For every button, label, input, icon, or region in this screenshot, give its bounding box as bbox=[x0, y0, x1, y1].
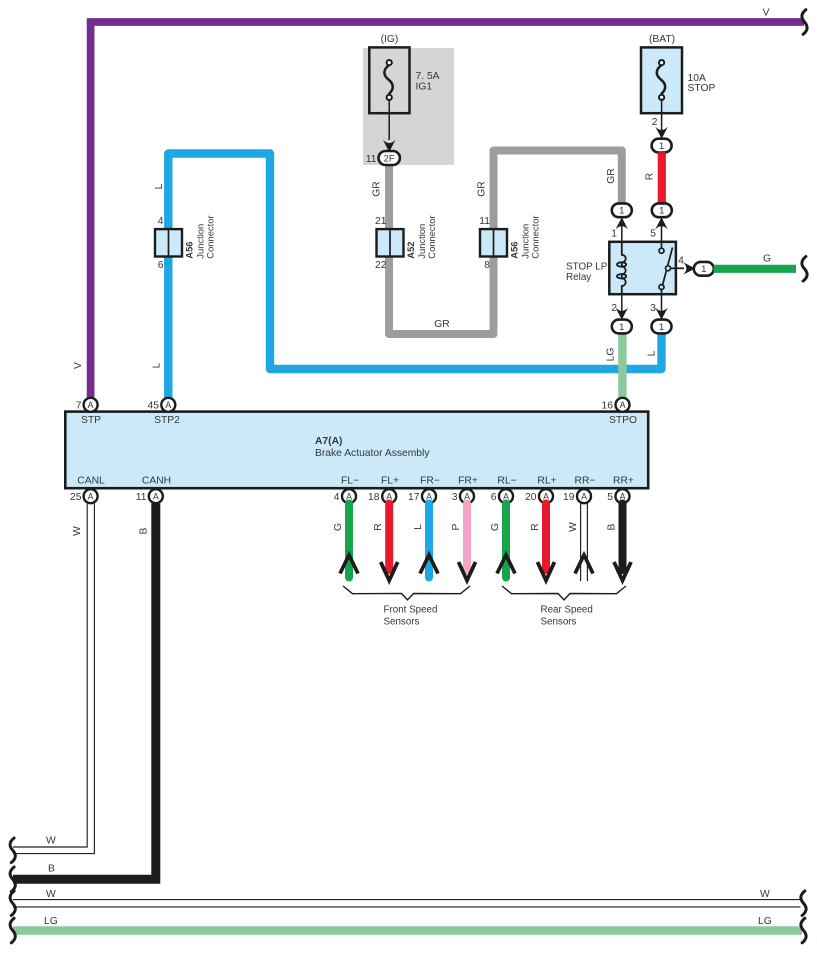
break symbol G wire bbox=[802, 257, 807, 282]
svg-text:GR: GR bbox=[477, 181, 488, 196]
svg-text:19: 19 bbox=[563, 492, 575, 503]
label STOP LP Relay bbox=[566, 262, 608, 284]
wire FR- L blue bbox=[420, 504, 438, 578]
svg-text:LG: LG bbox=[44, 916, 58, 927]
svg-text:3: 3 bbox=[452, 492, 458, 503]
label A52 Junction Connector bbox=[405, 215, 437, 258]
svg-text:W: W bbox=[568, 522, 579, 532]
connector oval GR column bbox=[612, 203, 632, 217]
svg-text:Connector: Connector bbox=[530, 215, 541, 258]
node FL- connector 4(A) bbox=[334, 476, 359, 504]
svg-text:STOP LP: STOP LP bbox=[566, 262, 608, 273]
break symbol V wire right end bbox=[802, 10, 807, 35]
svg-text:CANL: CANL bbox=[77, 476, 105, 487]
svg-text:17: 17 bbox=[408, 492, 420, 503]
svg-text:GR: GR bbox=[606, 168, 617, 183]
svg-text:G: G bbox=[333, 523, 344, 531]
node FR+ connector 3(A) bbox=[452, 476, 478, 504]
relay U1 STOP LP box bbox=[609, 242, 676, 294]
label Front Speed Sensors bbox=[384, 605, 438, 628]
junction connector A56 right bbox=[480, 229, 507, 256]
node CANH connector 11(A) bbox=[136, 476, 171, 504]
break symbol W left bbox=[10, 891, 15, 916]
wire LG relay pin2 to STPO bbox=[618, 333, 626, 398]
svg-text:RR−: RR− bbox=[575, 476, 596, 487]
label A7(A) title bbox=[315, 436, 430, 459]
connector oval above red wire bbox=[652, 139, 672, 153]
svg-text:(BAT): (BAT) bbox=[649, 34, 675, 45]
wire relay pin5 bbox=[655, 217, 668, 243]
svg-text:B: B bbox=[139, 527, 150, 534]
junction connector A56 left bbox=[155, 229, 182, 256]
svg-text:2: 2 bbox=[611, 303, 617, 314]
wire FR+ P pink bbox=[459, 504, 476, 581]
label A56 Junction Connector left bbox=[184, 215, 216, 258]
svg-text:FR−: FR− bbox=[420, 476, 440, 487]
svg-text:W: W bbox=[46, 889, 56, 900]
label Rear Speed Sensors bbox=[541, 605, 593, 628]
svg-text:Connector: Connector bbox=[426, 215, 437, 258]
svg-text:21: 21 bbox=[375, 216, 387, 227]
label 10A STOP bbox=[688, 73, 716, 94]
svg-text:1: 1 bbox=[611, 229, 617, 240]
break symbol LG right bbox=[801, 918, 806, 943]
svg-text:W: W bbox=[46, 836, 56, 847]
relay switch bbox=[659, 242, 684, 294]
wire relay pin1 bbox=[616, 217, 629, 243]
svg-text:Relay: Relay bbox=[566, 272, 591, 283]
wire V purple main bbox=[91, 22, 804, 398]
svg-text:G: G bbox=[763, 254, 771, 265]
svg-text:7: 7 bbox=[76, 401, 82, 412]
svg-text:Front Speed: Front Speed bbox=[384, 605, 438, 616]
svg-text:4: 4 bbox=[158, 216, 164, 227]
node CANL connector 25(A) bbox=[70, 476, 105, 504]
relay coil bbox=[617, 242, 626, 294]
svg-text:5: 5 bbox=[650, 229, 656, 240]
svg-text:2: 2 bbox=[652, 117, 658, 128]
svg-text:18: 18 bbox=[368, 492, 380, 503]
svg-text:B: B bbox=[607, 523, 618, 530]
svg-text:W: W bbox=[72, 526, 83, 536]
svg-text:5: 5 bbox=[607, 492, 613, 503]
node STP2 connector 45(A) bbox=[148, 398, 181, 426]
wire R red bbox=[658, 152, 666, 203]
svg-text:(IG): (IG) bbox=[381, 34, 399, 45]
svg-text:R: R bbox=[530, 523, 541, 530]
svg-text:4: 4 bbox=[334, 492, 340, 503]
svg-text:6: 6 bbox=[158, 260, 164, 271]
label A56 Junction Connector right bbox=[509, 215, 541, 258]
connector oval pin4 bbox=[694, 262, 714, 276]
wire W bottom horizontal bbox=[13, 900, 801, 907]
svg-text:STOP: STOP bbox=[688, 83, 716, 94]
brace front speed sensors bbox=[343, 586, 470, 600]
svg-text:6: 6 bbox=[491, 492, 497, 503]
node RR+ connector 5(A) bbox=[607, 476, 634, 504]
wire CANL W white bbox=[13, 504, 94, 854]
wire FL+ R red bbox=[381, 504, 398, 581]
svg-text:11: 11 bbox=[366, 154, 377, 165]
svg-text:STP2: STP2 bbox=[154, 415, 180, 426]
svg-text:RR+: RR+ bbox=[613, 476, 634, 487]
svg-text:LG: LG bbox=[758, 916, 772, 927]
svg-text:25: 25 bbox=[70, 492, 82, 503]
wire RR+ B black bbox=[614, 504, 631, 581]
svg-text:A7(A): A7(A) bbox=[315, 436, 342, 447]
svg-text:P: P bbox=[451, 523, 462, 530]
connector 2F bbox=[379, 151, 400, 165]
svg-text:22: 22 bbox=[375, 260, 387, 271]
node FR- connector 17(A) bbox=[408, 476, 440, 504]
IG fuse gray panel bbox=[363, 48, 454, 165]
break symbol LG left bbox=[10, 918, 15, 943]
svg-text:IG1: IG1 bbox=[416, 82, 433, 93]
break symbol W right bbox=[801, 891, 806, 916]
svg-text:Sensors: Sensors bbox=[541, 617, 577, 628]
ECU A7(A) Brake Actuator Assembly box bbox=[65, 412, 648, 489]
svg-text:V: V bbox=[763, 8, 770, 19]
wire relay pin3 bbox=[655, 294, 668, 320]
svg-text:L: L bbox=[647, 350, 658, 356]
svg-text:LG: LG bbox=[606, 348, 617, 362]
svg-text:2F: 2F bbox=[384, 154, 395, 164]
svg-text:RL−: RL− bbox=[497, 476, 516, 487]
break symbol CANL left bbox=[10, 838, 15, 863]
svg-text:45: 45 bbox=[148, 401, 160, 412]
svg-text:11: 11 bbox=[479, 216, 490, 227]
svg-text:Rear Speed: Rear Speed bbox=[541, 605, 593, 616]
svg-text:L: L bbox=[154, 183, 165, 189]
svg-text:CANH: CANH bbox=[142, 476, 171, 487]
svg-text:A52: A52 bbox=[405, 241, 416, 258]
wire RL- G green bbox=[497, 504, 515, 578]
svg-text:8: 8 bbox=[484, 260, 490, 271]
label 7. 5A IG1 bbox=[416, 71, 440, 93]
node RR- connector 19(A) bbox=[563, 476, 595, 504]
wire CANH B black bbox=[13, 504, 156, 880]
svg-text:RL+: RL+ bbox=[537, 476, 556, 487]
svg-text:4: 4 bbox=[678, 256, 684, 267]
connector oval R column bbox=[652, 203, 672, 217]
fuse box BAT bbox=[641, 47, 682, 113]
node STP connector 7(A) bbox=[76, 398, 101, 426]
svg-text:A56: A56 bbox=[509, 241, 520, 258]
fuse box IG bbox=[369, 47, 409, 113]
svg-text:STP: STP bbox=[81, 415, 101, 426]
node RL- connector 6(A) bbox=[491, 476, 517, 504]
wire relay pin2 bbox=[616, 294, 629, 320]
node STPO connector 16(A) bbox=[602, 398, 637, 426]
wire fuse IG to 2F bbox=[383, 100, 396, 152]
wire G green bbox=[714, 265, 797, 273]
svg-text:GR: GR bbox=[434, 319, 449, 330]
svg-text:B: B bbox=[48, 864, 55, 875]
wire RR- W white bbox=[575, 504, 593, 582]
svg-text:Connector: Connector bbox=[205, 215, 216, 258]
brace rear speed sensors bbox=[502, 586, 626, 600]
wire RL+ R red bbox=[538, 504, 555, 581]
junction connector A52 bbox=[377, 229, 404, 256]
svg-text:A56: A56 bbox=[184, 241, 195, 258]
node RL+ connector 20(A) bbox=[525, 476, 557, 504]
svg-text:G: G bbox=[490, 523, 501, 531]
connector oval pin2 bbox=[612, 320, 632, 334]
break symbol CANH left bbox=[10, 867, 15, 892]
node FL+ connector 18(A) bbox=[368, 476, 399, 504]
svg-text:3: 3 bbox=[650, 303, 656, 314]
wire FL- G green bbox=[340, 504, 358, 578]
svg-text:Sensors: Sensors bbox=[384, 617, 420, 628]
svg-text:R: R bbox=[373, 523, 384, 530]
connector oval pin3 bbox=[652, 320, 672, 334]
wire fuse BAT pin2 bbox=[655, 99, 668, 139]
svg-text:R: R bbox=[645, 173, 656, 180]
wire GR gray 2F to relay pin1 bbox=[389, 151, 622, 335]
svg-text:FL−: FL− bbox=[341, 476, 359, 487]
svg-text:20: 20 bbox=[525, 492, 537, 503]
svg-text:FL+: FL+ bbox=[381, 476, 399, 487]
svg-text:11: 11 bbox=[136, 492, 147, 503]
svg-text:FR+: FR+ bbox=[458, 476, 478, 487]
svg-text:GR: GR bbox=[372, 181, 383, 196]
svg-text:STPO: STPO bbox=[609, 415, 637, 426]
svg-text:W: W bbox=[760, 889, 770, 900]
svg-text:V: V bbox=[73, 362, 84, 369]
svg-text:L: L bbox=[152, 362, 163, 368]
relay pin4 arrow bbox=[683, 262, 695, 275]
svg-text:L: L bbox=[413, 524, 424, 530]
svg-text:16: 16 bbox=[602, 401, 614, 412]
wire L blue STP2 to relay pin3 bbox=[168, 154, 661, 399]
svg-text:Brake Actuator Assembly: Brake Actuator Assembly bbox=[315, 448, 430, 459]
svg-text:7. 5A: 7. 5A bbox=[416, 71, 440, 82]
wire LG bottom horizontal bbox=[13, 926, 802, 934]
